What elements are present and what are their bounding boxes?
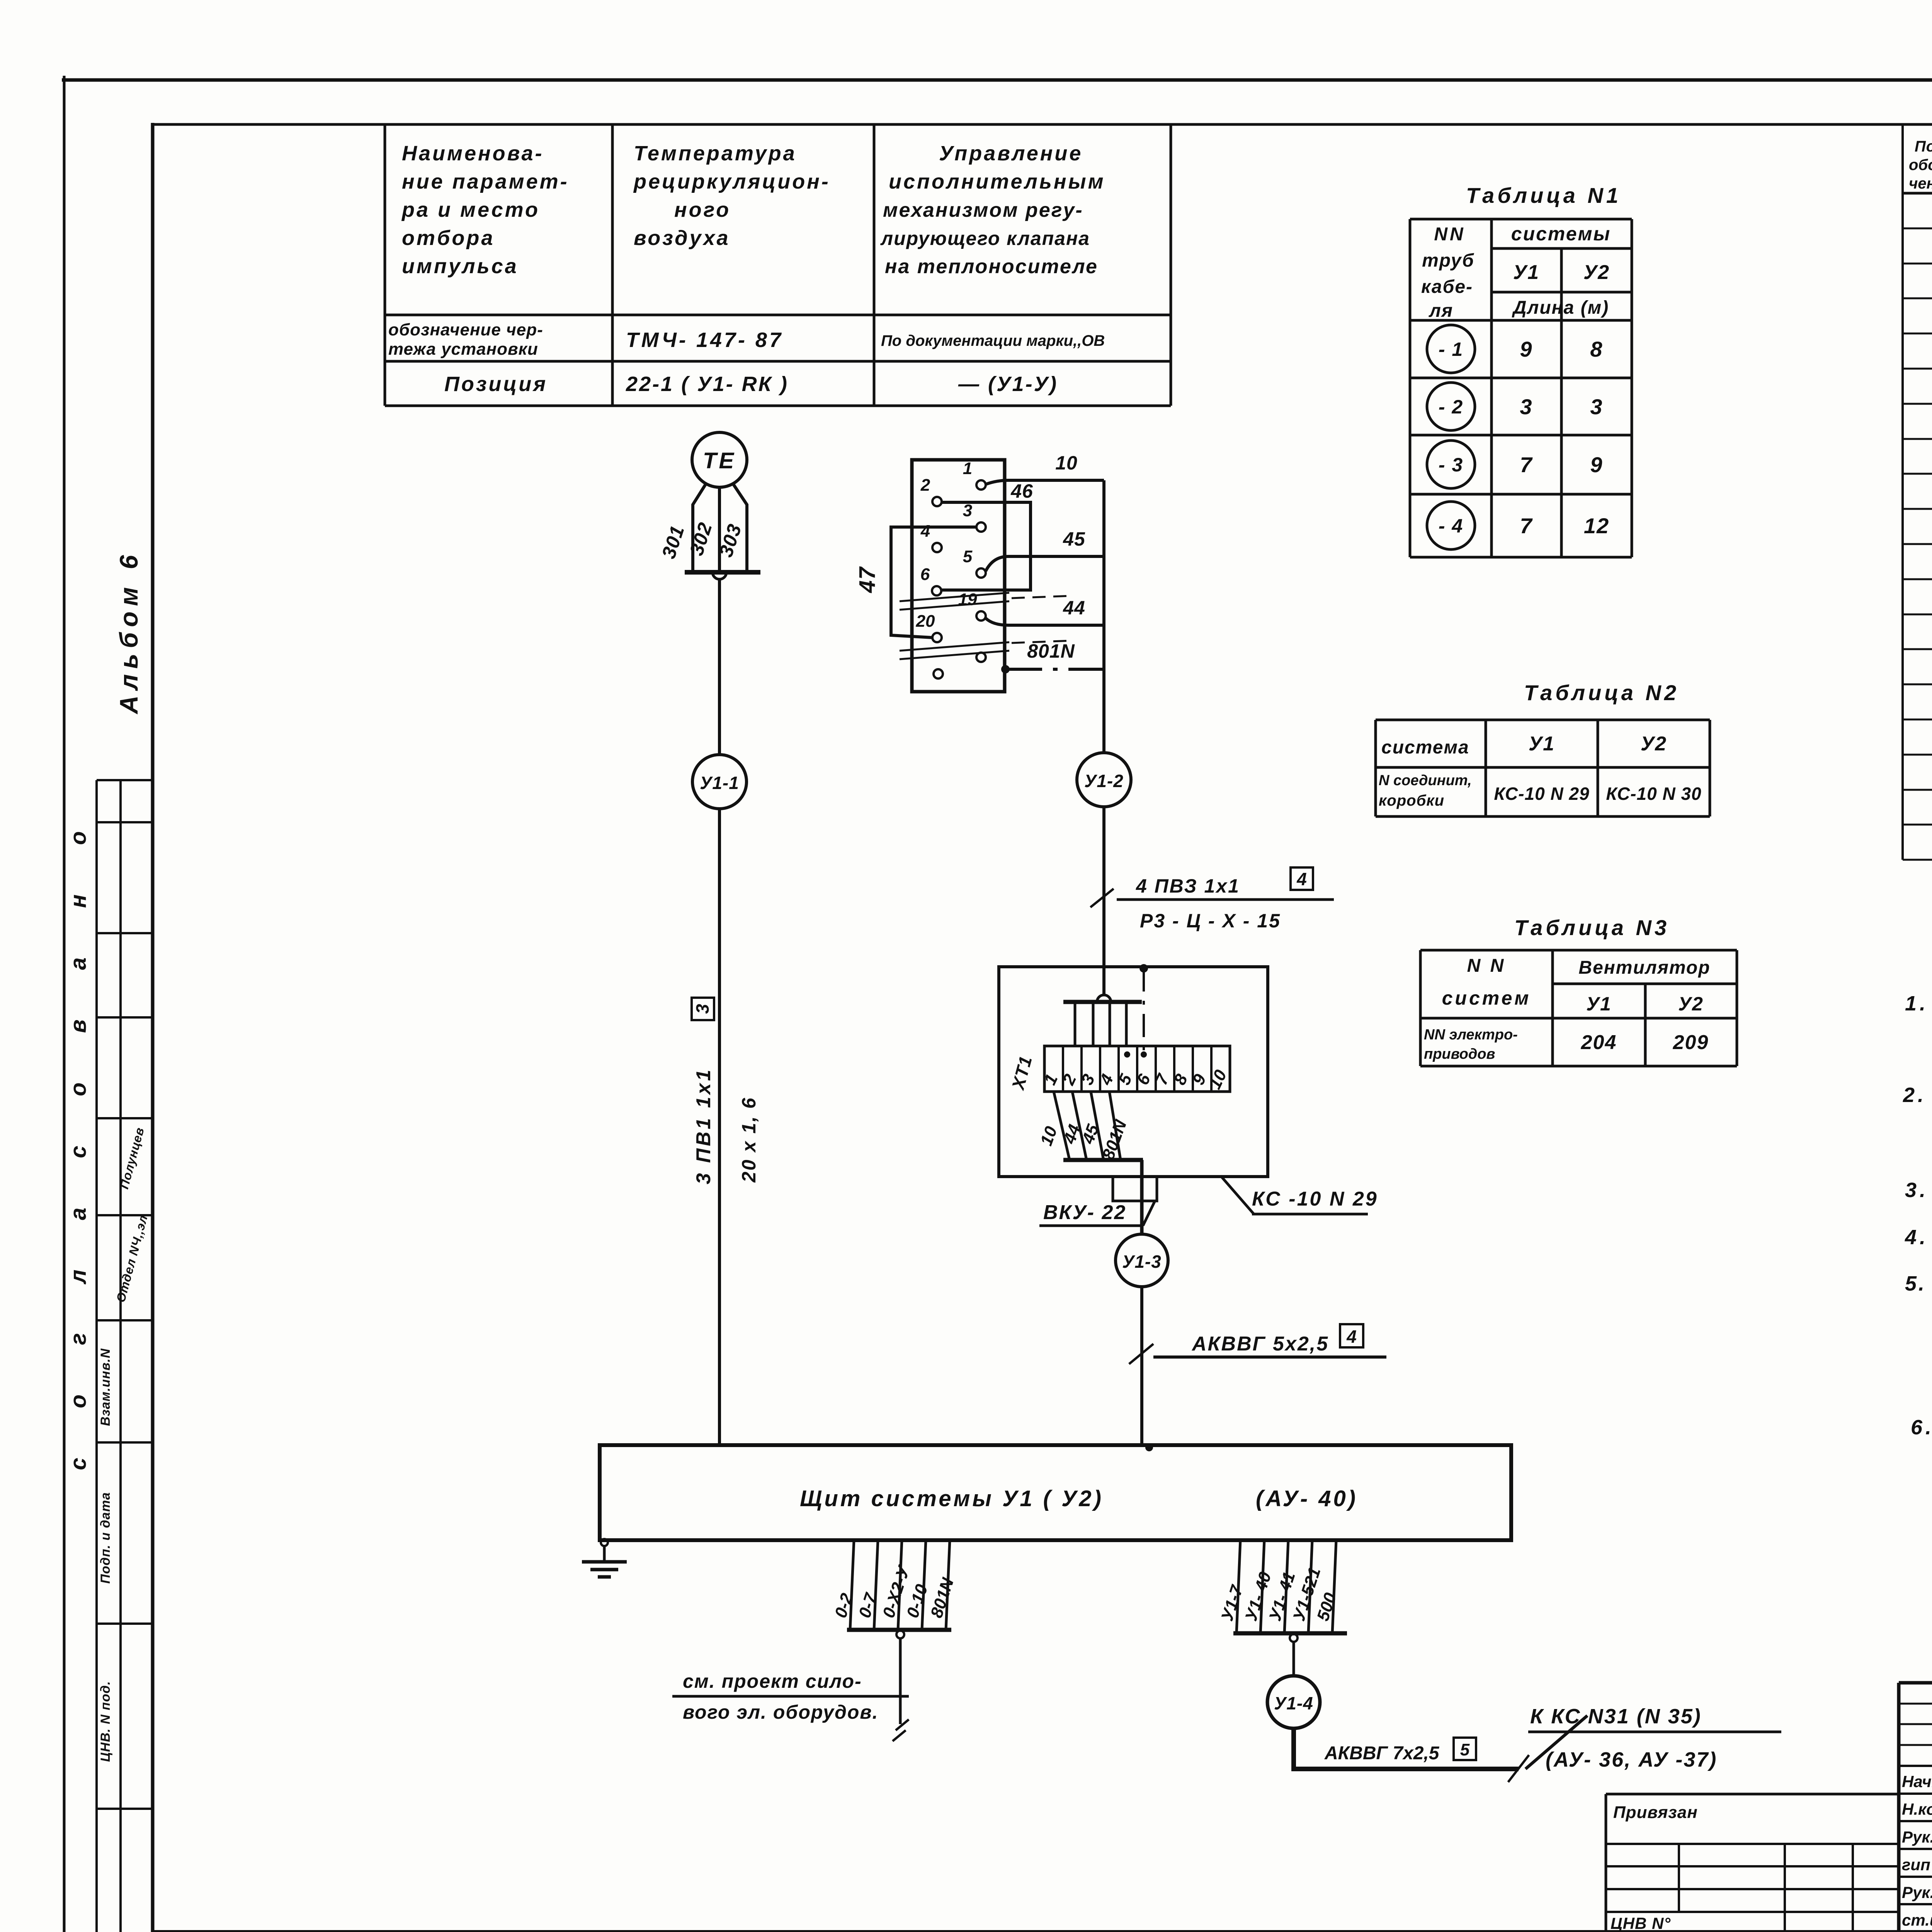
svg-text:1: 1 xyxy=(963,459,972,478)
svg-text:ст.инж: ст.инж xyxy=(1902,1911,1932,1929)
svg-text:4: 4 xyxy=(920,522,930,541)
note see power project xyxy=(672,1670,909,1723)
svg-text:3: 3 xyxy=(963,501,972,520)
svg-text:лирующего клапана: лирующего клапана xyxy=(880,228,1090,249)
svg-text:ра и место: ра и место xyxy=(401,198,540,221)
svg-text:систем: систем xyxy=(1442,987,1531,1009)
table N1 xyxy=(1410,183,1632,557)
svg-text:ТМЧ- 147- 87: ТМЧ- 147- 87 xyxy=(626,328,783,352)
wire 47 loop xyxy=(855,527,976,638)
svg-text:12: 12 xyxy=(1584,514,1609,538)
cable label AKVVG 5x2.5 [4] xyxy=(1129,1324,1386,1364)
svg-text:44: 44 xyxy=(1063,597,1085,619)
terminal strip XT1 xyxy=(1007,1046,1230,1093)
svg-text:Таблица N2: Таблица N2 xyxy=(1524,680,1679,705)
strip outgoing wires xyxy=(1037,1092,1143,1162)
svg-text:АКВВГ 7х2,5: АКВВГ 7х2,5 xyxy=(1324,1743,1440,1764)
svg-text:(АУ- 36, АУ -37): (АУ- 36, АУ -37) xyxy=(1546,1748,1717,1771)
cable marker U1-2 xyxy=(1077,753,1131,807)
svg-text:NN: NN xyxy=(1434,224,1465,245)
junction box KS-10 N29 xyxy=(999,967,1268,1177)
svg-text:на теплоносителе: на теплоносителе xyxy=(885,255,1098,278)
svg-text:КС-10 N 30: КС-10 N 30 xyxy=(1606,784,1701,804)
svg-text:отбора: отбора xyxy=(402,226,495,250)
svg-text:импульса: импульса xyxy=(402,255,519,278)
svg-text:У1-4: У1-4 xyxy=(1274,1693,1313,1713)
wire U1-3 to panel xyxy=(1142,1287,1153,1451)
cable label 3PV1 1x1 [3] xyxy=(692,998,760,1184)
svg-text:У1-3: У1-3 xyxy=(1122,1252,1162,1272)
pin 20 xyxy=(916,612,942,642)
svg-text:с о г л а с о в а н о: с о г л а с о в а н о xyxy=(66,810,91,1470)
svg-text:- 4: - 4 xyxy=(1439,515,1463,537)
svg-text:(АУ- 40): (АУ- 40) xyxy=(1256,1486,1358,1511)
svg-text:1. Схема выполнена для сист: 1. Схема выполнена для системы У1 и прим… xyxy=(1905,992,1932,1015)
label KS-10 N29 xyxy=(1221,1176,1378,1214)
cable AKVVG 7x2.5 [5] run xyxy=(1291,1716,1587,1782)
svg-text:ТЕ: ТЕ xyxy=(703,448,736,473)
svg-text:Таблица N3: Таблица N3 xyxy=(1514,915,1670,940)
svg-text:механизмом регу-: механизмом регу- xyxy=(883,199,1083,221)
svg-text:4 ПВЗ 1х1: 4 ПВЗ 1х1 xyxy=(1136,875,1240,897)
panel left outgoing wires xyxy=(831,1540,957,1741)
cable marker U1-1 xyxy=(692,755,747,809)
svg-text:5.: 5. xyxy=(1905,1272,1926,1295)
wire 45 xyxy=(986,528,1104,571)
svg-text:8: 8 xyxy=(1590,337,1603,361)
wire TE to U1-1 xyxy=(718,579,721,755)
svg-text:Позиция: Позиция xyxy=(444,372,548,396)
svg-text:ного: ного xyxy=(674,198,731,221)
ground symbol xyxy=(582,1539,627,1577)
left margin approval word xyxy=(66,810,91,1470)
svg-text:3: 3 xyxy=(692,1004,713,1014)
svg-text:4: 4 xyxy=(1296,869,1307,889)
svg-text:3. Длина труб, кабелей прив: 3. Длина труб, кабелей приведена в табли… xyxy=(1905,1179,1932,1202)
pin 1 xyxy=(963,459,986,490)
svg-text:7: 7 xyxy=(1520,514,1533,538)
table N3 xyxy=(1420,915,1737,1066)
materials list table xyxy=(1903,124,1932,860)
svg-text:Привязан: Привязан xyxy=(1613,1803,1698,1822)
svg-text:чение: чение xyxy=(1909,175,1932,192)
svg-text:КС-10 N 29: КС-10 N 29 xyxy=(1494,784,1589,804)
svg-text:У1-1: У1-1 xyxy=(700,773,739,793)
attachment table xyxy=(1606,1794,1899,1932)
svg-text:У1: У1 xyxy=(1513,261,1539,284)
terminal box item 47 xyxy=(912,460,1005,692)
svg-text:9: 9 xyxy=(1520,337,1532,361)
svg-text:- 2: - 2 xyxy=(1439,396,1463,418)
svg-text:гип: гип xyxy=(1902,1855,1930,1874)
svg-text:системы: системы xyxy=(1511,223,1611,245)
svg-text:система: система xyxy=(1381,737,1469,758)
svg-text:801N: 801N xyxy=(1027,640,1075,662)
svg-text:ВКУ- 22: ВКУ- 22 xyxy=(1043,1201,1126,1224)
pin 4 xyxy=(920,522,942,552)
svg-text:46: 46 xyxy=(1010,480,1033,502)
pin 2 xyxy=(920,476,942,506)
svg-text:Температура: Температура xyxy=(634,142,797,165)
panel right outgoing wires xyxy=(1218,1540,1347,1676)
svg-text:5: 5 xyxy=(963,547,973,566)
sensor leads 301 302 303 xyxy=(658,484,760,579)
title block xyxy=(1899,1683,1932,1932)
svg-text:ние парамет-: ние парамет- xyxy=(402,170,569,193)
gland VKU-22 xyxy=(1039,1177,1157,1226)
parameter table xyxy=(385,124,1171,406)
svg-text:3: 3 xyxy=(1590,395,1603,419)
svg-text:204: 204 xyxy=(1581,1031,1617,1054)
svg-text:Взам.инв.N: Взам.инв.N xyxy=(98,1348,113,1426)
wire 10 xyxy=(986,452,1104,753)
svg-text:2: 2 xyxy=(920,476,930,495)
svg-text:6: 6 xyxy=(920,565,930,584)
wire U1-2 to KS box xyxy=(1102,807,1105,996)
svg-text:У1-2: У1-2 xyxy=(1084,771,1124,791)
svg-text:NN электро-: NN электро- xyxy=(1424,1027,1518,1043)
box cable entry bar xyxy=(1063,995,1142,1046)
pin nc xyxy=(934,669,943,679)
svg-text:- 1: - 1 xyxy=(1439,338,1463,360)
svg-text:— (У1-У): — (У1-У) xyxy=(958,372,1058,396)
svg-text:6. Перечень монтажных матер: 6. Перечень монтажных материалов и издел… xyxy=(1911,1416,1932,1439)
svg-text:4. Номера соединительных кор: 4. Номера соединительных коробок приведе… xyxy=(1905,1226,1932,1249)
svg-text:4: 4 xyxy=(1346,1327,1357,1347)
destination label K KS N31 xyxy=(1528,1705,1781,1771)
svg-text:3: 3 xyxy=(1520,395,1532,419)
svg-text:кабе-: кабе- xyxy=(1421,277,1473,297)
break marks in box xyxy=(900,593,1071,659)
sensor TE xyxy=(692,432,747,487)
cable label 4PV3 1x1 [4] xyxy=(1090,867,1334,932)
svg-text:К КС N31 (N 35): К КС N31 (N 35) xyxy=(1530,1705,1702,1728)
svg-text:20: 20 xyxy=(916,612,935,631)
svg-text:У2: У2 xyxy=(1641,733,1667,755)
svg-text:ЦНВ N°: ЦНВ N° xyxy=(1611,1914,1671,1932)
dash branch to strip xyxy=(1124,964,1148,1058)
svg-text:2. Индекс ,, У1” в маркировк: 2. Индекс ,, У1” в маркировке труб, кабе… xyxy=(1903,1083,1932,1107)
wire U1-1 to panel xyxy=(718,809,721,1445)
wire 801N xyxy=(1001,640,1104,673)
svg-text:19: 19 xyxy=(958,590,977,609)
svg-text:У1: У1 xyxy=(1586,993,1612,1015)
svg-text:У2: У2 xyxy=(1583,261,1610,284)
pin 3 xyxy=(963,501,986,532)
svg-text:Рук.сек: Рук.сек xyxy=(1902,1828,1932,1846)
svg-text:У1: У1 xyxy=(1529,733,1555,755)
svg-text:45: 45 xyxy=(1063,528,1085,550)
svg-text:Р3 - Ц - Х - 15: Р3 - Ц - Х - 15 xyxy=(1140,910,1281,932)
pin 19 xyxy=(958,590,986,621)
svg-text:обозна-: обозна- xyxy=(1909,156,1932,173)
svg-text:вого эл. оборудов.: вого эл. оборудов. xyxy=(683,1701,878,1723)
svg-text:исполнительным: исполнительным xyxy=(889,170,1105,193)
svg-text:ля: ля xyxy=(1429,301,1453,321)
svg-text:Н.контр: Н.контр xyxy=(1902,1800,1932,1818)
svg-text:воздуха: воздуха xyxy=(634,226,730,250)
svg-text:7: 7 xyxy=(1520,452,1533,477)
svg-text:Щит системы У1 ( У2): Щит системы У1 ( У2) xyxy=(800,1486,1104,1511)
wire strip to U1-3 xyxy=(1140,1160,1144,1235)
svg-text:10: 10 xyxy=(1055,452,1078,474)
svg-text:КС -10 N 29: КС -10 N 29 xyxy=(1252,1188,1378,1210)
svg-text:22-1 ( У1- RК ): 22-1 ( У1- RК ) xyxy=(626,372,789,396)
pin nc xyxy=(976,653,986,662)
svg-text:47: 47 xyxy=(855,566,880,593)
pin 5 xyxy=(963,547,986,578)
svg-text:5: 5 xyxy=(1460,1740,1470,1759)
svg-text:рециркуляцион-: рециркуляцион- xyxy=(633,170,830,193)
table N2 xyxy=(1376,680,1710,816)
svg-text:3 ПВ1 1х1: 3 ПВ1 1х1 xyxy=(692,1068,715,1184)
svg-text:Вентилятор: Вентилятор xyxy=(1578,957,1710,978)
svg-text:ЦНВ. N под.: ЦНВ. N под. xyxy=(98,1681,113,1762)
svg-text:АКВВГ 5х2,5: АКВВГ 5х2,5 xyxy=(1191,1333,1329,1355)
cable marker U1-3 xyxy=(1116,1234,1168,1287)
notes text xyxy=(1903,992,1932,1485)
svg-text:Таблица N1: Таблица N1 xyxy=(1466,183,1621,207)
svg-text:Нач.отд: Нач.отд xyxy=(1902,1772,1932,1791)
svg-text:N N: N N xyxy=(1467,956,1506,976)
svg-text:N соединит,: N соединит, xyxy=(1379,772,1472,789)
control panel AU-40 xyxy=(600,1445,1511,1540)
svg-text:Длина (м): Длина (м) xyxy=(1512,298,1609,318)
cable marker U1-4 xyxy=(1267,1676,1320,1728)
svg-text:Рук. гр.: Рук. гр. xyxy=(1902,1883,1932,1901)
svg-text:Поз,: Поз, xyxy=(1915,138,1932,155)
svg-text:9: 9 xyxy=(1590,452,1603,477)
left margin album label xyxy=(114,550,143,715)
svg-text:приводов: приводов xyxy=(1424,1046,1495,1062)
svg-text:Альбом 6: Альбом 6 xyxy=(114,550,143,715)
svg-text:обозначение чер-: обозначение чер- xyxy=(388,320,543,339)
wire 44 xyxy=(986,597,1104,625)
svg-text:У2: У2 xyxy=(1678,993,1704,1015)
pin 6 xyxy=(920,565,941,595)
svg-text:см. проект сило-: см. проект сило- xyxy=(683,1670,862,1692)
svg-text:209: 209 xyxy=(1673,1031,1709,1054)
wire 46 xyxy=(942,480,1033,590)
svg-text:Управление: Управление xyxy=(939,142,1083,165)
svg-text:Наименова-: Наименова- xyxy=(402,142,544,165)
svg-text:20 х 1, 6: 20 х 1, 6 xyxy=(738,1097,760,1183)
svg-text:труб: труб xyxy=(1422,250,1475,271)
svg-text:- 3: - 3 xyxy=(1439,454,1463,476)
svg-text:Подп. и дата: Подп. и дата xyxy=(98,1492,113,1583)
svg-text:тежа установки: тежа установки xyxy=(388,340,538,359)
svg-text:По документации марки,,ОВ: По документации марки,,ОВ xyxy=(881,332,1105,349)
svg-text:коробки: коробки xyxy=(1379,792,1444,809)
